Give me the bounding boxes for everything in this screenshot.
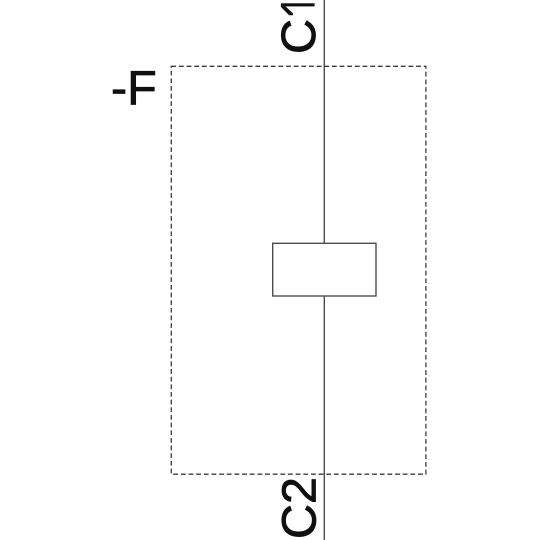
- svg-text:C: C: [272, 19, 326, 54]
- svg-text:-F: -F: [111, 61, 157, 115]
- svg-text:C2: C2: [273, 477, 327, 539]
